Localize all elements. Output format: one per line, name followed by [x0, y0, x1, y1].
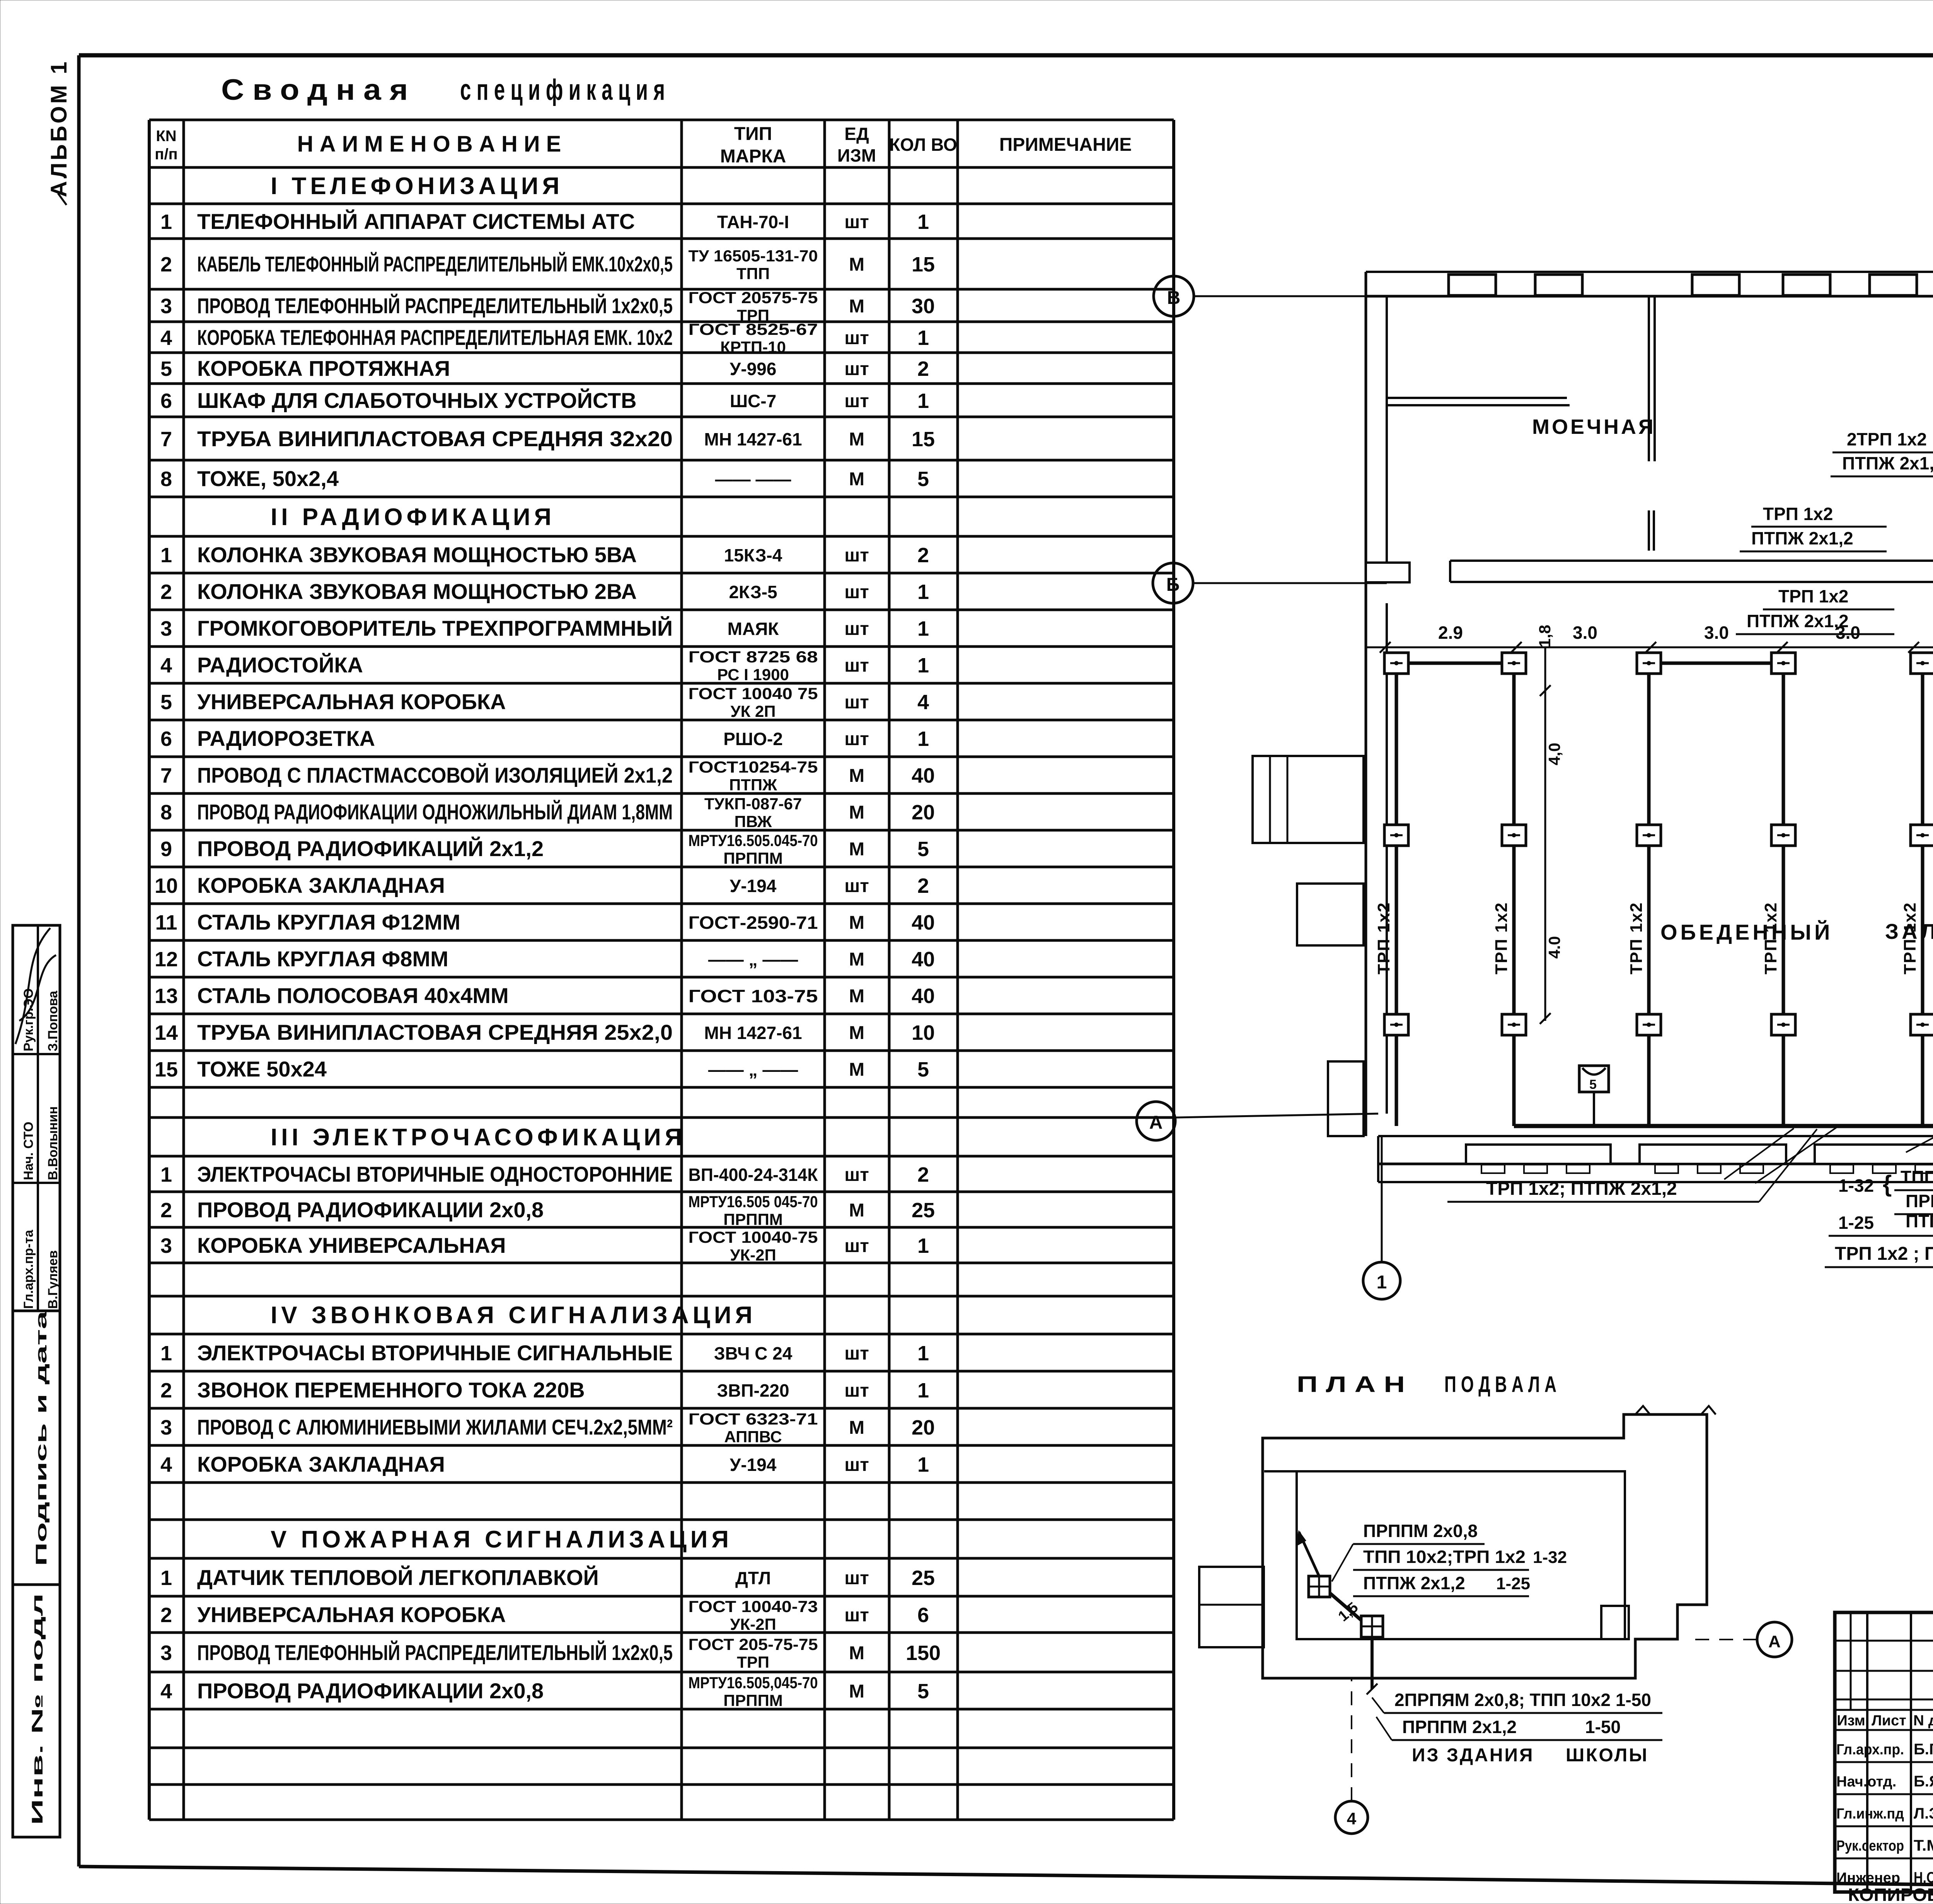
- svg-text:2: 2: [160, 1199, 172, 1222]
- svg-text:Нач.отд.: Нач.отд.: [1836, 1774, 1896, 1790]
- left porch B: [1297, 884, 1364, 945]
- svg-text:ТРП 1х2; ПТПЖ 2х1,2: ТРП 1х2; ПТПЖ 2х1,2: [1486, 1179, 1677, 1199]
- svg-text:ПРППМ: ПРППМ: [723, 1691, 783, 1710]
- svg-text:шт: шт: [844, 359, 869, 379]
- kitchen-dining wall: [1450, 560, 1933, 562]
- svg-text:ПРППМ 2х1,2: ПРППМ 2х1,2: [1402, 1717, 1517, 1737]
- vertical dim 4.0: [1544, 647, 1546, 1021]
- svg-text:1: 1: [917, 326, 929, 350]
- svg-text:ТРП 1х2: ТРП 1х2: [1492, 902, 1511, 975]
- svg-text:ТОЖЕ 50х24: ТОЖЕ 50х24: [197, 1057, 327, 1081]
- svg-text:1-50: 1-50: [1585, 1717, 1621, 1737]
- svg-text:УНИВЕРСАЛЬНАЯ КОРОБКА: УНИВЕРСАЛЬНАЯ КОРОБКА: [197, 1602, 506, 1627]
- svg-text:шт: шт: [844, 655, 869, 676]
- svg-text:1: 1: [917, 617, 929, 640]
- svg-text:5: 5: [1589, 1077, 1597, 1092]
- svg-text:У-194: У-194: [730, 876, 777, 896]
- svg-text:М: М: [849, 1200, 864, 1221]
- axis 4: [1335, 1801, 1368, 1834]
- left wall notch at Б: [1366, 563, 1410, 582]
- svg-text:ПРППМ 2х 0,8: ПРППМ 2х 0,8: [1906, 1191, 1933, 1211]
- svg-text:7: 7: [160, 428, 172, 451]
- svg-text:5: 5: [917, 1058, 929, 1081]
- svg-text:шт: шт: [844, 545, 869, 566]
- svg-text:—— „ ——: —— „ ——: [708, 949, 798, 969]
- svg-text:ШС-7: ШС-7: [730, 391, 776, 411]
- title block horizontals left part: [1835, 1640, 1933, 1642]
- svg-text:ПТПЖ 2х1,2: ПТПЖ 2х1,2: [1747, 611, 1849, 631]
- svg-text:1: 1: [160, 1163, 172, 1186]
- svg-text:V ПОЖАРНАЯ СИГНАЛИЗАЦИЯ: V ПОЖАРНАЯ СИГНАЛИЗАЦИЯ: [271, 1526, 733, 1553]
- svg-text:6: 6: [160, 389, 172, 413]
- svg-text:КОЛОНКА ЗВУКОВАЯ МОЩНОСТЬЮ 5ВА: КОЛОНКА ЗВУКОВАЯ МОЩНОСТЬЮ 5ВА: [197, 543, 637, 567]
- svg-text:ТАН-70-I: ТАН-70-I: [717, 212, 789, 232]
- svg-text:5: 5: [160, 691, 172, 714]
- svg-text:4.0: 4.0: [1545, 936, 1563, 959]
- svg-text:шт: шт: [844, 1605, 869, 1626]
- svg-text:14: 14: [155, 1021, 178, 1044]
- svg-text:ЗАЛ: ЗАЛ: [1885, 919, 1933, 943]
- svg-text:3: 3: [160, 617, 172, 640]
- svg-text:2.9: 2.9: [1438, 623, 1463, 643]
- svg-text:1-25: 1-25: [1496, 1574, 1530, 1593]
- svg-text:УК 2П: УК 2П: [731, 702, 776, 720]
- svg-text:40: 40: [912, 764, 935, 787]
- svg-text:ПРОВОД ТЕЛЕФОННЫЙ РАСПРЕДЕЛИТЕ: ПРОВОД ТЕЛЕФОННЫЙ РАСПРЕДЕЛИТЕЛЬНЫЙ 1х2х…: [197, 293, 673, 318]
- svg-text:15КЗ-4: 15КЗ-4: [724, 545, 782, 565]
- sheet frame: [79, 53, 1933, 58]
- svg-text:15: 15: [912, 253, 935, 276]
- left step C: [1328, 1061, 1364, 1136]
- svg-text:СТАЛЬ ПОЛОСОВАЯ 40х4ММ: СТАЛЬ ПОЛОСОВАЯ 40х4ММ: [197, 983, 509, 1008]
- svg-text:2: 2: [917, 357, 929, 380]
- axis circle 1: [1363, 1262, 1400, 1299]
- left wall: [1365, 272, 1367, 1136]
- svg-text:МАРКА: МАРКА: [720, 146, 786, 167]
- svg-text:2: 2: [917, 544, 929, 567]
- svg-text:Нач. СТО: Нач. СТО: [21, 1122, 36, 1180]
- svg-text:Н.Овсянникова: Н.Овсянникова: [1914, 1869, 1933, 1886]
- svg-text:3: 3: [160, 295, 172, 318]
- svg-text:Инженер: Инженер: [1836, 1870, 1900, 1886]
- svg-text:шт: шт: [844, 328, 869, 348]
- svg-text:М: М: [849, 949, 864, 970]
- svg-text:3: 3: [160, 1416, 172, 1439]
- svg-text:УНИВЕРСАЛЬНАЯ КОРОБКА: УНИВЕРСАЛЬНАЯ КОРОБКА: [197, 689, 506, 714]
- svg-text:ГОСТ 8725 68: ГОСТ 8725 68: [689, 648, 818, 666]
- svg-text:1,8: 1,8: [1536, 625, 1554, 647]
- svg-text:12: 12: [155, 948, 178, 971]
- svg-text:ГОСТ 10040-73: ГОСТ 10040-73: [689, 1597, 818, 1616]
- svg-text:Л.Закс: Л.Закс: [1914, 1805, 1933, 1822]
- svg-text:15: 15: [155, 1058, 178, 1081]
- svg-text:ПТПЖ 2х1,2: ПТПЖ 2х1,2: [1363, 1573, 1465, 1593]
- svg-text:3.0: 3.0: [1836, 623, 1860, 643]
- fire callpoints: [1579, 1066, 1609, 1092]
- svg-text:2: 2: [160, 1604, 172, 1627]
- svg-text:Гл.арх.пр-та: Гл.арх.пр-та: [21, 1230, 36, 1309]
- svg-text:1: 1: [160, 1566, 172, 1590]
- left margin stamp table upper: [13, 925, 60, 1311]
- svg-text:4,0: 4,0: [1545, 743, 1563, 765]
- svg-text:ТЕЛЕФОННЫЙ АППАРАТ СИСТЕМЫ АТС: ТЕЛЕФОННЫЙ АППАРАТ СИСТЕМЫ АТС: [197, 209, 635, 234]
- svg-text:М: М: [849, 802, 864, 823]
- svg-text:ДТЛ: ДТЛ: [735, 1568, 771, 1588]
- svg-text:Подпись и дата: Подпись и дата: [33, 1310, 50, 1566]
- svg-text:25: 25: [912, 1199, 935, 1222]
- svg-text:ТРП 1х2: ТРП 1х2: [1778, 586, 1848, 606]
- svg-text:4: 4: [917, 691, 929, 714]
- svg-text:ПРОВОД РАДИОФИКАЦИЙ 2х1,2: ПРОВОД РАДИОФИКАЦИЙ 2х1,2: [197, 836, 544, 861]
- svg-text:М: М: [849, 986, 864, 1007]
- svg-text:М: М: [849, 913, 864, 933]
- svg-text:1: 1: [917, 210, 929, 234]
- svg-text:ТУ 16505-131-70: ТУ 16505-131-70: [689, 247, 818, 265]
- svg-text:5: 5: [917, 467, 929, 491]
- column line 5: [1921, 663, 1924, 1126]
- svg-text:У-194: У-194: [730, 1455, 777, 1475]
- basement boxes: [1309, 1576, 1330, 1597]
- svg-text:ПТПЖ 2х1,2: ПТПЖ 2х1,2: [1751, 528, 1853, 548]
- svg-text:КРТП-10: КРТП-10: [720, 338, 786, 356]
- svg-text:М: М: [849, 1643, 864, 1663]
- svg-text:М: М: [849, 1681, 864, 1702]
- axis circle Б: [1153, 563, 1193, 603]
- svg-text:3.0: 3.0: [1704, 623, 1729, 643]
- svg-text:5: 5: [917, 838, 929, 861]
- svg-text:ПРППМ: ПРППМ: [723, 1210, 783, 1228]
- column line 2: [1512, 663, 1516, 1126]
- svg-text:2ПРПЯМ 2х0,8; ТПП 10х2 1-50: 2ПРПЯМ 2х0,8; ТПП 10х2 1-50: [1394, 1690, 1651, 1710]
- svg-text:ГОСТ10254-75: ГОСТ10254-75: [689, 758, 818, 776]
- svg-text:—— ——: —— ——: [715, 469, 791, 489]
- svg-text:А: А: [1768, 1632, 1781, 1651]
- mochnaya shelf: [1387, 397, 1567, 399]
- svg-text:В.Гуляев: В.Гуляев: [46, 1250, 60, 1309]
- svg-text:150: 150: [906, 1641, 941, 1665]
- svg-text:I ТЕЛЕФОНИЗАЦИЯ: I ТЕЛЕФОНИЗАЦИЯ: [271, 173, 563, 200]
- svg-text:ТПП 10х2;ТРП 1х2: ТПП 10х2;ТРП 1х2: [1363, 1547, 1526, 1567]
- svg-text:3.0: 3.0: [1573, 623, 1597, 643]
- svg-text:ПРППМ 2х0,8: ПРППМ 2х0,8: [1363, 1521, 1478, 1541]
- svg-text:4: 4: [160, 1680, 172, 1703]
- svg-text:М: М: [849, 839, 864, 860]
- svg-text:25: 25: [912, 1566, 935, 1590]
- svg-text:ШКОЛЫ: ШКОЛЫ: [1566, 1745, 1648, 1766]
- svg-text:ГОСТ 205-75-75: ГОСТ 205-75-75: [689, 1635, 818, 1653]
- svg-text:шт: шт: [844, 876, 869, 896]
- svg-text:ЕД: ЕД: [844, 124, 869, 144]
- svg-text:N докуменТА: N докуменТА: [1913, 1713, 1933, 1729]
- svg-text:ГОСТ-2590-71: ГОСТ-2590-71: [689, 913, 818, 933]
- svg-text:ТРП: ТРП: [737, 1653, 769, 1671]
- svg-text:II РАДИОФИКАЦИЯ: II РАДИОФИКАЦИЯ: [271, 504, 555, 531]
- svg-text:{: {: [1883, 1171, 1892, 1197]
- svg-text:ПТПЖ 2Х1,2: ПТПЖ 2Х1,2: [1906, 1211, 1933, 1231]
- svg-text:РШО-2: РШО-2: [723, 729, 783, 749]
- svg-text:Инв. № подл: Инв. № подл: [29, 1593, 46, 1825]
- arrow up-left: [1299, 1532, 1319, 1576]
- svg-text:1: 1: [917, 389, 929, 413]
- serving counters: [1466, 1145, 1611, 1164]
- svg-text:2: 2: [160, 1379, 172, 1402]
- svg-text:М: М: [849, 766, 864, 786]
- svg-text:КОПИРОВАЛ Т.ШУВАЛОВА: КОПИРОВАЛ Т.ШУВАЛОВА: [1848, 1885, 1933, 1904]
- svg-text:Рук.сектор: Рук.сектор: [1836, 1838, 1904, 1854]
- axis circle В: [1154, 276, 1194, 316]
- svg-text:ПРППМ: ПРППМ: [723, 849, 783, 867]
- svg-text:ПРОВОД РАДИОФИКАЦИИ 2х0,8: ПРОВОД РАДИОФИКАЦИИ 2х0,8: [197, 1198, 544, 1222]
- svg-text:МН 1427-61: МН 1427-61: [704, 1023, 802, 1043]
- axis A basement: [1757, 1622, 1792, 1657]
- svg-text:Изм: Изм: [1837, 1713, 1865, 1729]
- svg-text:4: 4: [160, 1453, 172, 1476]
- svg-text:ЗВОНОК ПЕРЕМЕННОГО ТОКА 220В: ЗВОНОК ПЕРЕМЕННОГО ТОКА 220В: [197, 1378, 585, 1402]
- mochnaya partition: [1648, 296, 1650, 461]
- svg-text:8: 8: [160, 467, 172, 491]
- svg-text:ПТПЖ: ПТПЖ: [729, 776, 777, 794]
- svg-text:1: 1: [917, 1379, 929, 1402]
- svg-text:6: 6: [917, 1604, 929, 1627]
- svg-text:М: М: [849, 1418, 864, 1438]
- svg-text:Н А И М Е Н О В А Н И Е: Н А И М Е Н О В А Н И Е: [297, 131, 561, 157]
- basement outline: [1263, 1414, 1707, 1678]
- svg-text:ЗВП-220: ЗВП-220: [717, 1380, 789, 1401]
- svg-text:2КЗ-5: 2КЗ-5: [729, 582, 777, 602]
- svg-text:2ТРП 1х2: 2ТРП 1х2: [1847, 429, 1927, 449]
- svg-text:КОЛ ВО: КОЛ ВО: [889, 135, 957, 155]
- svg-text:МАЯК: МАЯК: [728, 619, 779, 639]
- svg-text:шт: шт: [844, 1165, 869, 1185]
- svg-text:Б.Гуляев: Б.Гуляев: [1914, 1741, 1933, 1758]
- svg-text:ТОЖЕ, 50х2,4: ТОЖЕ, 50х2,4: [197, 466, 339, 491]
- svg-text:4: 4: [1347, 1809, 1357, 1828]
- svg-text:ИЗ ЗДАНИЯ: ИЗ ЗДАНИЯ: [1412, 1745, 1534, 1766]
- svg-text:13: 13: [155, 984, 178, 1008]
- svg-text:МРТУ16.505,045-70: МРТУ16.505,045-70: [689, 1674, 818, 1692]
- svg-text:ИЗМ: ИЗМ: [837, 145, 876, 165]
- svg-text:шт: шт: [844, 692, 869, 713]
- svg-text:ЗВЧ С 24: ЗВЧ С 24: [714, 1343, 793, 1363]
- svg-text:3: 3: [160, 1234, 172, 1257]
- svg-text:З.Попова: З.Попова: [46, 990, 60, 1051]
- svg-text:шт: шт: [844, 1568, 869, 1588]
- svg-text:КОРОБКА ЗАКЛАДНАЯ: КОРОБКА ЗАКЛАДНАЯ: [197, 873, 445, 897]
- svg-text:Сводная: Сводная: [221, 73, 416, 106]
- svg-text:шт: шт: [844, 1343, 869, 1364]
- svg-text:15: 15: [912, 428, 935, 451]
- svg-text:3: 3: [160, 1641, 172, 1665]
- svg-text:СТАЛЬ КРУГЛАЯ Ф8ММ: СТАЛЬ КРУГЛАЯ Ф8ММ: [197, 947, 448, 971]
- svg-text:П О Д В А Л А: П О Д В А Л А: [1444, 1372, 1556, 1397]
- svg-text:8: 8: [160, 801, 172, 824]
- svg-text:1: 1: [160, 1342, 172, 1365]
- dimension line dining: [1366, 647, 1933, 648]
- svg-text:В.Волынин: В.Волынин: [46, 1106, 60, 1180]
- svg-text:МРТУ16.505 045-70: МРТУ16.505 045-70: [689, 1193, 818, 1211]
- svg-text:с п е ц и ф и к а ц и я: с п е ц и ф и к а ц и я: [460, 73, 665, 106]
- svg-text:1: 1: [917, 1234, 929, 1257]
- svg-text:П Л А Н: П Л А Н: [1297, 1372, 1405, 1397]
- svg-text:шт: шт: [844, 1455, 869, 1475]
- svg-text:ТПП 10х2, ТРП 1х2: ТПП 10х2, ТРП 1х2: [1901, 1167, 1933, 1187]
- svg-text:4: 4: [160, 654, 172, 677]
- column line 3: [1647, 663, 1651, 1126]
- svg-text:ТРУБА ВИНИПЛАСТОВАЯ СРЕДНЯЯ 25: ТРУБА ВИНИПЛАСТОВАЯ СРЕДНЯЯ 25х2,0: [197, 1020, 673, 1044]
- window band dashes top right: [1583, 271, 1692, 273]
- svg-text:В: В: [1167, 288, 1181, 308]
- svg-text:20: 20: [912, 801, 935, 824]
- svg-text:ВП-400-24-314К: ВП-400-24-314К: [689, 1165, 818, 1185]
- svg-text:МОЕЧНАЯ: МОЕЧНАЯ: [1532, 415, 1656, 438]
- svg-text:ТИП: ТИП: [734, 124, 772, 144]
- svg-text:30: 30: [912, 295, 935, 318]
- svg-text:10: 10: [155, 874, 178, 897]
- svg-text:Б.Яковлев: Б.Яковлев: [1914, 1773, 1933, 1790]
- svg-text:ПВЖ: ПВЖ: [735, 812, 772, 831]
- svg-text:ТРП 1х2: ТРП 1х2: [1763, 504, 1833, 524]
- svg-text:ГОСТ 10040 75: ГОСТ 10040 75: [689, 684, 818, 703]
- svg-text:ПРОВОД РАДИОФИКАЦИИ 2х0,8: ПРОВОД РАДИОФИКАЦИИ 2х0,8: [197, 1679, 544, 1703]
- basement inner walls: [1264, 1470, 1607, 1472]
- lower band line: [1378, 1181, 1933, 1183]
- svg-text:КОРОБКА ТЕЛЕФОННАЯ РАСПРЕДЕЛИТ: КОРОБКА ТЕЛЕФОННАЯ РАСПРЕДЕЛИТЕЛЬНАЯ ЕМК…: [197, 325, 673, 350]
- svg-text:У-996: У-996: [730, 359, 777, 379]
- svg-text:ТУКП-087-67: ТУКП-087-67: [704, 795, 802, 813]
- title block verticals left part: [1866, 1612, 1868, 1892]
- svg-text:шт: шт: [844, 1236, 869, 1256]
- svg-text:ЭЛЕКТРОЧАСЫ ВТОРИЧНЫЕ СИГНАЛЬН: ЭЛЕКТРОЧАСЫ ВТОРИЧНЫЕ СИГНАЛЬНЫЕ: [197, 1341, 673, 1365]
- svg-text:шт: шт: [844, 582, 869, 602]
- svg-text:шт: шт: [844, 212, 869, 232]
- svg-text:Т.Мытарева: Т.Мытарева: [1914, 1837, 1933, 1854]
- svg-text:КОРОБКА ЗАКЛАДНАЯ: КОРОБКА ЗАКЛАДНАЯ: [197, 1452, 445, 1476]
- basement right inner block: [1601, 1606, 1629, 1639]
- svg-text:РАДИОСТОЙКА: РАДИОСТОЙКА: [197, 653, 363, 677]
- basement left porch: [1199, 1567, 1264, 1647]
- svg-text:20: 20: [912, 1416, 935, 1439]
- svg-text:ДАТЧИК ТЕПЛОВОЙ ЛЕГКОПЛАВКОЙ: ДАТЧИК ТЕПЛОВОЙ ЛЕГКОПЛАВКОЙ: [197, 1565, 599, 1590]
- left porch A: [1253, 756, 1364, 843]
- break marks: [1635, 1406, 1650, 1414]
- cable down from box: [1370, 1637, 1374, 1689]
- svg-text:ТРП 1х2: ТРП 1х2: [1374, 902, 1393, 975]
- svg-text:ГОСТ 6323-71: ГОСТ 6323-71: [689, 1410, 818, 1428]
- svg-text:М: М: [849, 254, 864, 275]
- svg-text:РС I 1900: РС I 1900: [717, 665, 789, 684]
- svg-text:СТАЛЬ КРУГЛАЯ Ф12ММ: СТАЛЬ КРУГЛАЯ Ф12ММ: [197, 910, 460, 934]
- svg-text:1-32: 1-32: [1533, 1548, 1567, 1567]
- svg-text:Гл.инж.пд: Гл.инж.пд: [1836, 1806, 1904, 1822]
- svg-text:4: 4: [160, 326, 172, 350]
- svg-text:КN: КN: [156, 128, 176, 145]
- svg-text:1: 1: [917, 1342, 929, 1365]
- svg-text:шт: шт: [844, 729, 869, 749]
- svg-text:1: 1: [160, 544, 172, 567]
- svg-text:КОРОБКА ПРОТЯЖНАЯ: КОРОБКА ПРОТЯЖНАЯ: [197, 356, 450, 380]
- svg-text:11: 11: [155, 911, 177, 934]
- svg-text:ПРОВОД С ПЛАСТМАССОВОЙ ИЗОЛЯЦИ: ПРОВОД С ПЛАСТМАССОВОЙ ИЗОЛЯЦИЕЙ 2х1,2: [197, 763, 673, 787]
- specification table grid: [149, 119, 1174, 121]
- svg-text:ТРУБА ВИНИПЛАСТОВАЯ СРЕДНЯЯ: ТРУБА ВИНИПЛАСТОВАЯ СРЕДНЯЯ 32х20: [197, 427, 673, 451]
- svg-text:ОБЕДЕННЫЙ: ОБЕДЕННЫЙ: [1660, 920, 1833, 944]
- svg-text:1-32: 1-32: [1838, 1175, 1874, 1196]
- svg-text:2: 2: [917, 874, 929, 897]
- svg-text:40: 40: [912, 911, 935, 934]
- svg-text:ГРОМКОГОВОРИТЕЛЬ ТРЕХПРОГРАММН: ГРОМКОГОВОРИТЕЛЬ ТРЕХПРОГРАММНЫЙ: [197, 616, 673, 640]
- svg-text:5: 5: [160, 357, 172, 380]
- svg-text:УК-2П: УК-2П: [730, 1246, 776, 1264]
- svg-text:ГОСТ 8525-67: ГОСТ 8525-67: [689, 320, 818, 338]
- svg-text:РАДИОРОЗЕТКА: РАДИОРОЗЕТКА: [197, 726, 375, 751]
- svg-text:М: М: [849, 1023, 864, 1043]
- svg-text:М: М: [849, 296, 864, 317]
- svg-text:ПРОВОД ТЕЛЕФОННЫЙ РАСПРЕДЕЛИТЕ: ПРОВОД ТЕЛЕФОННЫЙ РАСПРЕДЕЛИТЕЛЬНЫЙ 1х2х…: [197, 1640, 673, 1665]
- svg-text:2: 2: [160, 580, 172, 604]
- svg-text:2: 2: [160, 253, 172, 276]
- svg-text:6: 6: [160, 727, 172, 751]
- svg-text:1: 1: [917, 1453, 929, 1476]
- svg-text:IV ЗВОНКОВАЯ СИГНАЛИЗАЦИЯ: IV ЗВОНКОВАЯ СИГНАЛИЗАЦИЯ: [271, 1302, 756, 1329]
- svg-text:шт: шт: [844, 1380, 869, 1401]
- svg-text:М: М: [849, 1059, 864, 1080]
- svg-text:ГОСТ 20575-75: ГОСТ 20575-75: [689, 288, 818, 307]
- svg-text:Лист: Лист: [1872, 1713, 1906, 1729]
- mochnaya partition stub: [1648, 510, 1650, 551]
- svg-text:ПРОВОД РАДИОФИКАЦИИ ОДНОЖИЛЬНЫ: ПРОВОД РАДИОФИКАЦИИ ОДНОЖИЛЬНЫЙ ДИАМ 1,8…: [197, 800, 673, 824]
- svg-text:5: 5: [917, 1680, 929, 1703]
- svg-text:МН 1427-61: МН 1427-61: [704, 429, 802, 449]
- svg-text:ТРП 1х2 ; ПТПЖ 2х1,2: ТРП 1х2 ; ПТПЖ 2х1,2: [1835, 1244, 1933, 1264]
- svg-text:КОРОБКА УНИВЕРСАЛЬНАЯ: КОРОБКА УНИВЕРСАЛЬНАЯ: [197, 1233, 506, 1257]
- svg-text:ШКАФ ДЛЯ СЛАБОТОЧНЫХ УСТРОЙСТВ: ШКАФ ДЛЯ СЛАБОТОЧНЫХ УСТРОЙСТВ: [197, 388, 637, 413]
- serving band walls: [1378, 1135, 1933, 1137]
- svg-text:1: 1: [917, 580, 929, 604]
- svg-text:1: 1: [917, 654, 929, 677]
- svg-text:1-25: 1-25: [1838, 1213, 1874, 1233]
- svg-text:40: 40: [912, 948, 935, 971]
- column line 4: [1782, 663, 1785, 1126]
- svg-text:ГОСТ 103-75: ГОСТ 103-75: [689, 986, 818, 1006]
- svg-text:III ЭЛЕКТРОЧАСОФИКАЦИЯ: III ЭЛЕКТРОЧАСОФИКАЦИЯ: [271, 1124, 686, 1151]
- svg-text:М: М: [849, 469, 864, 490]
- bottom bus: [1514, 1124, 1933, 1128]
- svg-text:ПТПЖ 2х1,2: ПТПЖ 2х1,2: [1842, 453, 1933, 473]
- axis circle А: [1137, 1102, 1175, 1140]
- top wall with windows: [1366, 271, 1933, 273]
- svg-text:1: 1: [1377, 1272, 1387, 1293]
- svg-text:ТПП: ТПП: [736, 264, 770, 283]
- svg-text:М: М: [849, 429, 864, 450]
- svg-text:АЛЬБОМ 1: АЛЬБОМ 1: [46, 60, 72, 197]
- svg-text:—— „ ——: —— „ ——: [708, 1059, 798, 1080]
- svg-text:40: 40: [912, 984, 935, 1008]
- svg-text:2: 2: [917, 1163, 929, 1186]
- left margin stamp table lower: [13, 1311, 60, 1585]
- svg-text:10: 10: [912, 1021, 935, 1044]
- svg-text:7: 7: [160, 764, 172, 787]
- svg-text:1: 1: [160, 210, 172, 234]
- svg-text:9: 9: [160, 838, 172, 861]
- svg-text:п/п: п/п: [155, 146, 177, 163]
- svg-text:ГОСТ 10040-75: ГОСТ 10040-75: [689, 1228, 818, 1246]
- svg-text:ТРП 1х2: ТРП 1х2: [1627, 902, 1646, 975]
- svg-text:МРТУ16.505.045-70: МРТУ16.505.045-70: [689, 831, 818, 850]
- svg-text:КАБЕЛЬ ТЕЛЕФОННЫЙ РАСПРЕДЕЛИТЕ: КАБЕЛЬ ТЕЛЕФОННЫЙ РАСПРЕДЕЛИТЕЛЬНЫЙ ЕМК.…: [197, 252, 673, 276]
- svg-text:ПРОВОД С АЛЮМИНИЕВЫМИ ЖИЛАМИ С: ПРОВОД С АЛЮМИНИЕВЫМИ ЖИЛАМИ СЕЧ.2х2,5ММ…: [197, 1415, 673, 1439]
- svg-text:шт: шт: [844, 619, 869, 639]
- svg-text:1: 1: [917, 727, 929, 751]
